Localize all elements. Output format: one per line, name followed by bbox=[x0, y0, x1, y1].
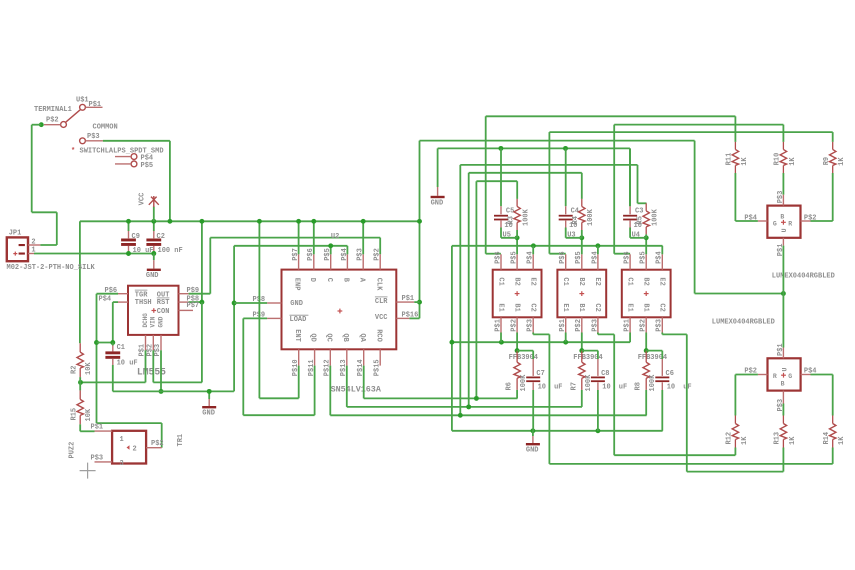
wire U5 B1 node bbox=[516, 333, 518, 351]
TR1 pin P$3 stub bbox=[95, 461, 113, 463]
resistor R13 1K bbox=[782, 416, 784, 424]
wire R8 bottom to QC bbox=[645, 390, 647, 415]
svg-text:10 uF: 10 uF bbox=[117, 360, 138, 368]
capacitor C6 10 uF bottom bbox=[646, 350, 662, 352]
svg-text:C2: C2 bbox=[157, 233, 165, 241]
junction U4 base top bbox=[644, 235, 649, 240]
LED2 pin P$2 left bbox=[758, 374, 768, 376]
U3 top pins bbox=[565, 254, 567, 269]
wire RST down to VIN wire bbox=[201, 302, 203, 382]
svg-text:R5: R5 bbox=[637, 216, 645, 224]
junction bus RST bbox=[199, 219, 204, 224]
svg-text:P$9: P$9 bbox=[187, 287, 200, 295]
svg-text:1K: 1K bbox=[789, 157, 797, 166]
svg-text:P$6: P$6 bbox=[624, 251, 632, 264]
wire 555 GND pin down bbox=[160, 350, 162, 391]
wire QC to R5 bridge bbox=[460, 164, 637, 166]
svg-text:P$3: P$3 bbox=[777, 191, 785, 204]
wire R6 bottom to QA bbox=[516, 390, 518, 399]
svg-text:LUMEX0404RGBLED: LUMEX0404RGBLED bbox=[712, 318, 775, 326]
svg-text:P$3: P$3 bbox=[777, 399, 785, 412]
svg-text:uF: uF bbox=[619, 384, 627, 392]
ground symbol bottom bbox=[532, 431, 534, 436]
resistor R12 1K bbox=[734, 416, 736, 424]
svg-text:ENT: ENT bbox=[293, 329, 301, 342]
svg-text:P$5: P$5 bbox=[141, 162, 154, 170]
wire U2 P$3 A to bus bbox=[362, 221, 364, 254]
wire U3 E2 pin bbox=[597, 246, 599, 255]
svg-text:R: R bbox=[788, 220, 792, 227]
svg-text:QA: QA bbox=[358, 333, 366, 342]
svg-text:uF: uF bbox=[554, 384, 562, 392]
switch lever P$2-P$1 bbox=[66, 110, 81, 123]
svg-text:B2: B2 bbox=[642, 277, 650, 285]
svg-text:GND: GND bbox=[146, 272, 159, 280]
svg-text:QD: QD bbox=[309, 333, 317, 341]
resistor R2 10K bbox=[79, 343, 81, 352]
svg-text:P$2: P$2 bbox=[151, 440, 164, 448]
junction LED P$1 net bbox=[781, 291, 786, 296]
resistor R8 100K bottom bbox=[645, 351, 647, 363]
wire R9 collector net bbox=[549, 131, 832, 133]
LED1 pin P$1 bottom bbox=[782, 238, 784, 246]
svg-text:1K: 1K bbox=[741, 436, 749, 445]
svg-text:P$1: P$1 bbox=[89, 101, 102, 109]
svg-text:C2: C2 bbox=[658, 303, 666, 311]
svg-text:C2: C2 bbox=[593, 303, 601, 311]
svg-text:P$2: P$2 bbox=[374, 248, 382, 261]
svg-text:1: 1 bbox=[120, 436, 124, 444]
U2 right pin P$1 CLR bbox=[396, 301, 414, 303]
svg-text:CLK: CLK bbox=[374, 278, 382, 291]
svg-text:R10: R10 bbox=[774, 153, 782, 166]
junction C5 top bbox=[498, 146, 503, 151]
svg-text:P$3: P$3 bbox=[91, 455, 104, 463]
wire T1 C2 to R14 bbox=[532, 333, 534, 335]
switch U$1 TERMINAL1 pin P$1 bbox=[80, 104, 86, 110]
ground symbol GND mid bbox=[208, 391, 210, 399]
LED1 pin P$4 left bbox=[758, 220, 768, 222]
transistor array U4 FFB3904 box bbox=[622, 270, 671, 318]
svg-text:C5: C5 bbox=[506, 208, 514, 216]
ground symbol below C2 bbox=[153, 254, 155, 261]
svg-text:P$2: P$2 bbox=[575, 319, 583, 332]
svg-text:TGR: TGR bbox=[135, 291, 148, 299]
svg-text:P$2: P$2 bbox=[46, 117, 59, 125]
junction THSH C1 node bbox=[110, 340, 115, 345]
svg-text:R3: R3 bbox=[507, 216, 515, 224]
resistor R15 10K bbox=[79, 382, 81, 390]
svg-text:GND: GND bbox=[290, 300, 303, 308]
svg-text:VCC: VCC bbox=[375, 314, 388, 322]
svg-text:P$6: P$6 bbox=[105, 287, 118, 295]
svg-text:C1: C1 bbox=[496, 277, 504, 285]
TR1 pin P$2 bbox=[146, 447, 162, 449]
svg-text:RCO: RCO bbox=[374, 329, 382, 342]
junction C4 top bbox=[563, 146, 568, 151]
transistor array U3 FFB3904 box bbox=[557, 270, 606, 318]
svg-text:VIN: VIN bbox=[150, 316, 157, 327]
LED2 pin P$3 bottom bbox=[782, 391, 784, 404]
U5 top pins bbox=[500, 254, 502, 269]
wire U5 E1 pin bbox=[500, 333, 502, 343]
svg-text:C9: C9 bbox=[132, 233, 140, 241]
LED LED1 LUMEX0404RGBLED box bbox=[767, 206, 800, 238]
resistor R7 100K bottom bbox=[581, 351, 583, 363]
LM555 pin P$8 RST bbox=[179, 301, 189, 303]
wire OUT up to CLK bbox=[209, 238, 211, 294]
svg-text:R7: R7 bbox=[570, 382, 578, 390]
svg-text:10: 10 bbox=[538, 384, 546, 392]
wire DCHG down bbox=[145, 350, 147, 382]
wire U5 B2 node bbox=[516, 238, 518, 255]
svg-text:R13: R13 bbox=[774, 432, 782, 445]
junction U5 base bottom bbox=[515, 348, 520, 353]
switch pin P$2 COMMON bbox=[61, 122, 67, 128]
JP1 pin 1 lead bbox=[28, 253, 34, 255]
svg-text:P$1: P$1 bbox=[777, 244, 785, 257]
svg-text:U: U bbox=[781, 368, 788, 372]
svg-text:P$15: P$15 bbox=[374, 359, 382, 376]
LED1 pin P$2 right bbox=[801, 220, 811, 222]
resistor R3 100K top bbox=[516, 199, 518, 207]
svg-text:LUMEX0404RGBLED: LUMEX0404RGBLED bbox=[772, 273, 835, 281]
wire T2 C2 to R12 bbox=[597, 333, 599, 335]
svg-text:B1: B1 bbox=[642, 303, 650, 311]
wire U3 E1 pin bbox=[565, 333, 567, 343]
svg-text:QC: QC bbox=[324, 333, 332, 341]
U2 bottom pins P$10..P$15 bbox=[298, 349, 300, 365]
svg-text:CLR: CLR bbox=[375, 298, 388, 306]
LED LED2 LUMEX0404RGBLED box bbox=[768, 358, 801, 390]
svg-text:P$1: P$1 bbox=[777, 343, 785, 356]
svg-text:P$6: P$6 bbox=[559, 251, 567, 264]
svg-text:THSH: THSH bbox=[135, 299, 152, 307]
svg-text:COMMON: COMMON bbox=[93, 124, 118, 132]
wire GND net left bbox=[113, 390, 234, 392]
wire R7 bottom to QB bbox=[581, 390, 583, 407]
wire R15 to TR1 P$1 bbox=[80, 430, 94, 432]
svg-text:R: R bbox=[773, 373, 777, 380]
LM555 pin P$6 TGR bbox=[118, 293, 128, 295]
svg-text:QB: QB bbox=[341, 333, 349, 342]
svg-text:B: B bbox=[780, 213, 784, 220]
ground symbol top middle bbox=[437, 187, 439, 196]
junction bus right end bbox=[417, 219, 422, 224]
wire CLR to vertical bbox=[414, 301, 419, 303]
junction QB wire bbox=[466, 404, 471, 409]
svg-text:JP1: JP1 bbox=[9, 229, 22, 237]
svg-text:B1: B1 bbox=[577, 303, 585, 311]
resistor R11 1K bbox=[734, 116, 736, 142]
svg-text:GND: GND bbox=[202, 410, 215, 418]
junction ENT bus bbox=[257, 219, 262, 224]
svg-text:E2: E2 bbox=[658, 277, 666, 285]
capacitor C7 10 uF bottom bbox=[517, 350, 533, 352]
wire T3 C2 to R13 bbox=[661, 333, 663, 335]
LM555 pin P$7 CON stub bbox=[179, 309, 194, 311]
svg-text:C6: C6 bbox=[666, 370, 674, 378]
svg-text:100K: 100K bbox=[587, 208, 595, 226]
wire U5 E2 pin bbox=[532, 246, 534, 255]
junction C2 top / VCC bbox=[151, 219, 156, 224]
counter U2 SN54LV163A box bbox=[282, 270, 397, 350]
junction U2 P$8 GND bbox=[232, 301, 237, 306]
svg-text:100K: 100K bbox=[522, 208, 530, 226]
LED1 pin P$3 top bbox=[782, 195, 784, 206]
svg-text:RST: RST bbox=[157, 299, 170, 307]
junction at P$2 bbox=[39, 122, 44, 127]
svg-text:E2: E2 bbox=[593, 277, 601, 285]
svg-text:GND: GND bbox=[526, 447, 539, 455]
svg-text:P$1: P$1 bbox=[559, 319, 567, 332]
switch pin P$5 bbox=[131, 161, 137, 167]
svg-text:C4: C4 bbox=[571, 208, 579, 216]
connector JP1 M02-JST-2-PTH-NO_SILK bbox=[7, 237, 28, 261]
resistor R10 1K bbox=[782, 125, 784, 142]
svg-text:100K: 100K bbox=[652, 208, 660, 226]
capacitor C2 100 nF bbox=[153, 221, 155, 231]
svg-text:ENP: ENP bbox=[293, 278, 301, 291]
junction emitter rail row bbox=[449, 340, 454, 345]
svg-text:M02-JST-2-PTH-NO_SILK: M02-JST-2-PTH-NO_SILK bbox=[7, 264, 96, 272]
VCC bus wire bbox=[80, 220, 420, 222]
svg-text:DCHG: DCHG bbox=[142, 313, 149, 328]
wire U2 P$9 LOAD to QD bbox=[243, 317, 267, 319]
svg-text:C1: C1 bbox=[117, 344, 125, 352]
LM555 pin P$1 DCHG bbox=[145, 335, 147, 350]
LM555 pin P$4 THSH bbox=[118, 301, 128, 303]
LM555 pin P$2 VIN bbox=[152, 335, 154, 350]
svg-text:B1: B1 bbox=[512, 303, 520, 311]
svg-text:P$3: P$3 bbox=[656, 319, 664, 332]
svg-text:SN54LV163A: SN54LV163A bbox=[331, 384, 382, 394]
wire U3 B2 node bbox=[581, 238, 583, 255]
junction P$3 wire on bus bbox=[167, 219, 172, 224]
svg-text:C8: C8 bbox=[601, 370, 609, 378]
svg-text:P$3: P$3 bbox=[527, 319, 535, 332]
U2 right pin P$16 VCC bbox=[396, 317, 409, 319]
svg-text:P$6: P$6 bbox=[494, 251, 502, 264]
op-amp timer LM555 box bbox=[128, 286, 179, 335]
resistor R6 100K bottom bbox=[516, 351, 518, 363]
junction QC wire bbox=[458, 413, 463, 418]
svg-text:TERMINAL1: TERMINAL1 bbox=[34, 106, 72, 114]
svg-text:R15: R15 bbox=[71, 408, 79, 421]
wire U2 GND net B C bbox=[234, 245, 347, 247]
svg-text:U2: U2 bbox=[331, 233, 339, 241]
wire cap ground net bbox=[438, 147, 630, 149]
svg-text:P$1: P$1 bbox=[402, 295, 415, 303]
wire R2 bottom to DCHG bbox=[81, 381, 146, 383]
svg-text:B2: B2 bbox=[577, 277, 585, 285]
origin crosshair bbox=[80, 470, 96, 472]
resistor R4 100K top bbox=[581, 199, 583, 207]
junction R2 R15 DCHG bbox=[78, 380, 83, 385]
wire emitter rail bbox=[452, 245, 663, 247]
svg-text:R11: R11 bbox=[726, 153, 734, 166]
svg-text:G: G bbox=[788, 373, 792, 380]
wire THSH down to C1 node bbox=[112, 302, 114, 342]
svg-text:R4: R4 bbox=[572, 216, 580, 224]
svg-text:G: G bbox=[773, 220, 777, 227]
svg-text:PUZ2: PUZ2 bbox=[69, 442, 77, 459]
junction C9 bottom bbox=[126, 251, 131, 256]
svg-text:R9: R9 bbox=[823, 157, 831, 165]
svg-text:E1: E1 bbox=[561, 303, 569, 311]
junction U5 base top bbox=[515, 235, 520, 240]
svg-text:R12: R12 bbox=[726, 432, 734, 445]
junction CLR node bbox=[417, 300, 422, 305]
svg-text:VCC: VCC bbox=[139, 193, 147, 206]
svg-text:2: 2 bbox=[133, 446, 137, 454]
svg-text:E2: E2 bbox=[529, 277, 537, 285]
svg-text:R14: R14 bbox=[823, 432, 831, 445]
wire VIN down bbox=[152, 350, 154, 382]
svg-text:GND: GND bbox=[157, 316, 164, 327]
resistor R14 1K bbox=[832, 416, 834, 424]
wire TGR trigger net down bbox=[96, 294, 98, 423]
svg-text:100 nF: 100 nF bbox=[158, 247, 183, 255]
junction T1 E1 bbox=[499, 340, 504, 345]
U4 bottom pins bbox=[629, 317, 631, 332]
switch pin P$4 bbox=[131, 154, 137, 160]
svg-text:*: * bbox=[71, 148, 75, 156]
wire U2 P$8 to GND vertical bbox=[234, 302, 267, 304]
svg-text:E1: E1 bbox=[625, 303, 633, 311]
capacitor C8 10 uF bottom bbox=[582, 350, 598, 352]
svg-text:A: A bbox=[357, 278, 365, 283]
junction U4 base bottom bbox=[644, 348, 649, 353]
svg-text:P$1: P$1 bbox=[624, 319, 632, 332]
wire P$16 VCC to vertical bbox=[409, 317, 419, 319]
svg-text:C1: C1 bbox=[625, 277, 633, 285]
wire U4 E2 pin bbox=[661, 246, 663, 255]
capacitor C5 10 uF top bbox=[500, 148, 502, 206]
svg-text:P$2: P$2 bbox=[511, 319, 519, 332]
svg-text:1K: 1K bbox=[838, 436, 846, 445]
wire ENT to bus bbox=[258, 221, 260, 398]
svg-text:10: 10 bbox=[667, 384, 675, 392]
capacitor C3 top lead bbox=[629, 148, 631, 206]
wire U4 E1 pin bbox=[629, 333, 631, 343]
svg-text:U$1: U$1 bbox=[76, 97, 89, 105]
svg-text:3: 3 bbox=[120, 460, 124, 468]
LED2 pin P$1 top bbox=[782, 294, 784, 348]
wire P$3 to VCC bus bbox=[103, 140, 170, 142]
svg-text:TR1: TR1 bbox=[177, 434, 185, 447]
junction P$5 on BC wire bbox=[328, 243, 333, 248]
capacitor C4 10 uF top bbox=[565, 148, 567, 206]
wire bottom ground bbox=[452, 430, 663, 432]
LED2 pin P$4 right bbox=[801, 374, 811, 376]
junction QA wire bbox=[474, 396, 479, 401]
svg-text:P$4: P$4 bbox=[99, 295, 112, 303]
wire VCC to LED anodes bbox=[420, 140, 695, 142]
svg-text:C7: C7 bbox=[536, 370, 544, 378]
wire JP1 pin 1 ground rail bbox=[34, 253, 154, 255]
wire QB to R4 bridge bbox=[469, 172, 582, 174]
junction 555 GND bbox=[159, 389, 164, 394]
U2 left pin P$8 GND bbox=[267, 302, 281, 304]
junction U3 base bottom bbox=[579, 348, 584, 353]
svg-text:P$1: P$1 bbox=[91, 424, 104, 432]
junction U3 base top bbox=[579, 235, 584, 240]
wire R11 collector net bbox=[486, 115, 736, 117]
svg-text:1K: 1K bbox=[789, 436, 797, 445]
junction RST node bbox=[199, 300, 204, 305]
wire QC from P$12 bbox=[329, 366, 331, 416]
svg-text:10 uF: 10 uF bbox=[133, 247, 154, 255]
svg-text:P$3: P$3 bbox=[87, 133, 100, 141]
LM555 pin P$3 GND bbox=[160, 335, 162, 350]
svg-text:10K: 10K bbox=[85, 408, 93, 421]
U2 left pin P$9 LOAD bbox=[267, 317, 281, 319]
wire emitter row E1 bbox=[452, 341, 630, 343]
U3 bottom pins bbox=[565, 317, 567, 332]
junction C8 ground bbox=[595, 428, 600, 433]
JP1 pin 2 lead bbox=[28, 244, 40, 246]
svg-text:R8: R8 bbox=[635, 382, 643, 390]
svg-text:B: B bbox=[781, 381, 785, 388]
wire VCC bus down to R2 bbox=[79, 221, 81, 343]
wire RST to VCC bus bbox=[201, 221, 203, 302]
resistor R5 100K top bbox=[645, 203, 647, 211]
svg-text:LOAD: LOAD bbox=[290, 316, 307, 324]
TR1 pin P$1 bbox=[95, 430, 113, 432]
LM555 pin P$9 OUT bbox=[179, 293, 189, 295]
wire QA to R3 bridge bbox=[476, 180, 517, 182]
power symbol VCC bbox=[153, 207, 155, 222]
junction GND symbol bbox=[207, 389, 212, 394]
svg-text:P$4: P$4 bbox=[804, 368, 817, 376]
switch pin P$3 bbox=[80, 138, 86, 144]
svg-text:E1: E1 bbox=[496, 303, 504, 311]
svg-text:R2: R2 bbox=[71, 366, 79, 374]
wire U2 CLR VCC vertical bbox=[419, 141, 421, 319]
wire P$2 COMMON to JP1 pin 2 bbox=[32, 124, 42, 126]
svg-text:B: B bbox=[342, 278, 350, 283]
wire U2 P$6 D to bus bbox=[313, 221, 315, 254]
svg-text:P$7: P$7 bbox=[187, 302, 200, 310]
svg-text:P$2: P$2 bbox=[804, 214, 817, 222]
wire QA from P$14 bbox=[363, 366, 365, 399]
svg-text:U: U bbox=[781, 228, 788, 232]
svg-text:B2: B2 bbox=[512, 277, 520, 285]
wire CLK net to U2 P$2 bbox=[210, 237, 380, 239]
svg-text:D: D bbox=[308, 278, 316, 282]
junction T1 E2 bbox=[531, 243, 536, 248]
svg-text:P$4: P$4 bbox=[744, 214, 757, 222]
wire U2 P$7 ENP to bus bbox=[298, 221, 300, 254]
svg-text:GND: GND bbox=[431, 200, 444, 208]
transistor array U5 FFB3904 box bbox=[493, 270, 542, 318]
wire U4 B2 node bbox=[645, 238, 647, 255]
svg-text:1K: 1K bbox=[741, 157, 749, 166]
capacitor C9 10 uF bbox=[128, 221, 130, 231]
svg-text:10K: 10K bbox=[85, 362, 93, 375]
wire QB from P$13 bbox=[346, 366, 348, 407]
junction C2 bottom bbox=[151, 251, 156, 256]
wire GND net vertical bbox=[233, 246, 235, 392]
junction TGR column bbox=[94, 340, 99, 345]
svg-text:P$2: P$2 bbox=[640, 319, 648, 332]
svg-text:CON: CON bbox=[157, 308, 170, 316]
svg-text:C3: C3 bbox=[635, 208, 643, 216]
svg-text:C: C bbox=[325, 278, 333, 282]
junction T2 E1 bbox=[563, 340, 568, 345]
U5 bottom pins bbox=[500, 317, 502, 332]
